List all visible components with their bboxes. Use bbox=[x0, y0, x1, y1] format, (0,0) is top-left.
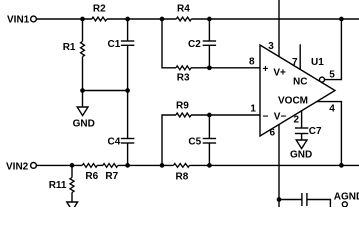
svg-text:4: 4 bbox=[329, 104, 335, 115]
label VIN1 bbox=[7, 15, 30, 26]
wire bottom row bbox=[37, 164, 359, 166]
node AGND terminal bbox=[342, 202, 347, 207]
junction pin8 row at C2 bbox=[207, 65, 212, 70]
junction AGND row bbox=[277, 197, 282, 202]
label NC bbox=[293, 77, 307, 88]
label C1 bbox=[108, 39, 121, 50]
output bubble pin5 bbox=[320, 77, 325, 82]
resistor R7 bbox=[103, 164, 118, 168]
label R3 bbox=[177, 72, 190, 83]
junction ground row left bbox=[80, 88, 85, 93]
svg-text:R2: R2 bbox=[93, 4, 106, 15]
label R4 bbox=[177, 4, 190, 15]
svg-text:+: + bbox=[263, 64, 269, 75]
resistor R11 bbox=[70, 165, 74, 202]
svg-text:C7: C7 bbox=[309, 126, 322, 137]
node VIN1 terminal bbox=[31, 16, 37, 22]
op-amp U1 triangle bbox=[260, 45, 335, 136]
op-amp input minus marker bbox=[263, 112, 269, 123]
node VIN2 terminal bbox=[31, 163, 37, 169]
junction top row at C2 bbox=[207, 17, 212, 22]
label V+ bbox=[273, 67, 286, 78]
wire pin6 supply vertical bbox=[278, 125, 280, 208]
resistor R9 bbox=[176, 113, 191, 117]
label R7 bbox=[105, 171, 118, 182]
svg-text:R8: R8 bbox=[176, 172, 189, 183]
svg-text:3: 3 bbox=[268, 41, 274, 52]
label R1 bbox=[63, 42, 76, 53]
label C7 bbox=[309, 126, 322, 137]
svg-text:2: 2 bbox=[294, 115, 300, 126]
pin 4 label bbox=[329, 104, 335, 115]
capacitor C4 bbox=[121, 91, 134, 166]
label GND2 bbox=[290, 150, 312, 161]
svg-text:−: − bbox=[263, 112, 269, 123]
pin 5 label bbox=[329, 69, 335, 80]
junction top row at feedback bbox=[339, 17, 344, 22]
svg-text:GND: GND bbox=[290, 150, 312, 161]
capacitor C2 bbox=[203, 19, 216, 68]
svg-text:6: 6 bbox=[270, 128, 276, 139]
pin 7 NC stub bbox=[299, 44, 301, 69]
resistor R1 bbox=[81, 19, 85, 91]
resistor R4 bbox=[176, 17, 191, 21]
svg-text:VIN2: VIN2 bbox=[6, 161, 29, 172]
svg-text:VOCM: VOCM bbox=[278, 96, 308, 107]
pin 3 label bbox=[268, 41, 274, 52]
label C2 bbox=[188, 39, 201, 50]
svg-text:R9: R9 bbox=[176, 100, 189, 111]
svg-text:R7: R7 bbox=[105, 171, 118, 182]
label GND1 bbox=[73, 118, 95, 129]
junction bottom row at feedback bbox=[339, 163, 344, 168]
wire pin4 output to feedback bottom bbox=[317, 102, 342, 166]
junction ground row right bbox=[125, 88, 130, 93]
wire R9 branch vertical bbox=[162, 115, 176, 165]
svg-text:C4: C4 bbox=[108, 136, 121, 147]
junction bottom row at R9 branch bbox=[160, 163, 165, 168]
capacitor C5 bbox=[203, 115, 216, 165]
svg-text:R3: R3 bbox=[177, 72, 190, 83]
svg-text:R4: R4 bbox=[177, 4, 190, 15]
svg-text:7: 7 bbox=[292, 57, 298, 68]
label R2 bbox=[93, 4, 106, 15]
capacitor C8 bypass bbox=[279, 193, 330, 207]
pin 1 label bbox=[250, 104, 256, 115]
label VOCM bbox=[278, 96, 308, 107]
svg-text:C2: C2 bbox=[188, 39, 201, 50]
label V- bbox=[274, 112, 287, 123]
junction bottom row at C5 bbox=[207, 163, 212, 168]
label R11 bbox=[49, 180, 67, 191]
junction top row at C1 bbox=[125, 17, 130, 22]
svg-text:C5: C5 bbox=[188, 136, 201, 147]
svg-text:1: 1 bbox=[250, 104, 256, 115]
label VIN2 bbox=[6, 161, 29, 172]
ground GND1 bbox=[77, 91, 88, 116]
resistor R6 bbox=[82, 164, 97, 168]
resistor R2 bbox=[92, 17, 107, 21]
svg-text:NC: NC bbox=[293, 77, 307, 88]
pin 7 label bbox=[292, 57, 298, 68]
wire ground row bbox=[83, 90, 128, 92]
wire pin8 row bbox=[191, 67, 260, 69]
label AGND bbox=[334, 191, 359, 202]
op-amp input plus marker bbox=[263, 64, 269, 75]
label R9 bbox=[176, 100, 189, 111]
junction pin1 row at C5 bbox=[207, 113, 212, 118]
junction bottom row at C4 bbox=[125, 163, 130, 168]
svg-text:AGND: AGND bbox=[334, 191, 359, 202]
ground GND2 (below C7) bbox=[296, 140, 307, 149]
wire pin1 row bbox=[191, 114, 260, 116]
pin 6 label bbox=[270, 128, 276, 139]
svg-text:C1: C1 bbox=[108, 39, 121, 50]
svg-text:5: 5 bbox=[329, 69, 335, 80]
svg-text:R6: R6 bbox=[85, 171, 98, 182]
svg-text:R11: R11 bbox=[49, 180, 67, 191]
wire R3 branch vertical bbox=[162, 19, 176, 68]
wire pin3 supply vertical bbox=[278, 0, 280, 57]
ground GND3 (below R11) bbox=[67, 202, 78, 211]
junction bottom row at R11 bbox=[70, 163, 75, 168]
svg-text:VIN1: VIN1 bbox=[7, 15, 30, 26]
resistor R3 bbox=[176, 66, 191, 70]
capacitor C1 bbox=[121, 19, 134, 91]
svg-text:GND: GND bbox=[73, 118, 95, 129]
label C4 bbox=[108, 136, 121, 147]
pin 8 label bbox=[249, 56, 255, 67]
svg-text:8: 8 bbox=[249, 56, 255, 67]
svg-text:R1: R1 bbox=[63, 42, 76, 53]
junction top row at R3 branch bbox=[160, 17, 165, 22]
pin 2 label bbox=[294, 115, 300, 126]
capacitor C7 bbox=[295, 111, 308, 140]
wire pin5 output to feedback top bbox=[325, 19, 342, 80]
svg-text:U1: U1 bbox=[311, 57, 324, 68]
svg-text:V−: V− bbox=[274, 112, 287, 123]
resistor R8 bbox=[174, 164, 190, 168]
label U1 bbox=[311, 57, 324, 68]
label R8 bbox=[176, 172, 189, 183]
junction top row at R1 bbox=[80, 17, 85, 22]
label R6 bbox=[85, 171, 98, 182]
svg-text:V+: V+ bbox=[273, 67, 286, 78]
label C5 bbox=[188, 136, 201, 147]
wire top row VIN1 to right edge bbox=[37, 18, 359, 20]
